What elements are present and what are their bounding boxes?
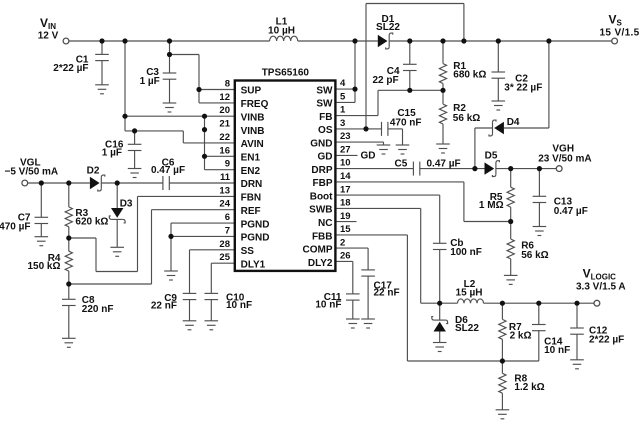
svg-text:TPS65160: TPS65160 bbox=[262, 68, 310, 79]
svg-text:10: 10 bbox=[340, 158, 351, 169]
svg-text:6: 6 bbox=[225, 212, 230, 223]
svg-text:D5: D5 bbox=[485, 151, 498, 162]
svg-text:23 V/50 mA: 23 V/50 mA bbox=[538, 154, 591, 165]
svg-text:C5: C5 bbox=[395, 158, 408, 169]
svg-text:FBB: FBB bbox=[312, 231, 333, 242]
svg-text:21: 21 bbox=[219, 119, 230, 130]
svg-text:56 kΩ: 56 kΩ bbox=[521, 250, 548, 261]
svg-text:150 kΩ: 150 kΩ bbox=[27, 261, 60, 272]
svg-text:DLY1: DLY1 bbox=[241, 259, 266, 270]
svg-text:56 kΩ: 56 kΩ bbox=[453, 113, 480, 124]
svg-text:FREQ: FREQ bbox=[241, 99, 269, 110]
svg-text:3: 3 bbox=[340, 118, 345, 129]
svg-text:9: 9 bbox=[225, 159, 230, 170]
svg-text:PGND: PGND bbox=[241, 219, 270, 230]
svg-text:SW: SW bbox=[316, 99, 333, 110]
svg-text:GD: GD bbox=[318, 152, 333, 163]
svg-text:1 µF: 1 µF bbox=[140, 76, 160, 87]
svg-text:22 pF: 22 pF bbox=[372, 75, 398, 86]
svg-text:27: 27 bbox=[340, 144, 351, 155]
svg-text:−5 V/50 mA: −5 V/50 mA bbox=[5, 167, 59, 178]
svg-text:25: 25 bbox=[219, 252, 230, 263]
svg-text:10 µH: 10 µH bbox=[268, 25, 295, 36]
svg-text:2*22 µF: 2*22 µF bbox=[589, 335, 624, 346]
svg-text:0.47 µF: 0.47 µF bbox=[427, 159, 461, 170]
svg-text:14: 14 bbox=[340, 171, 351, 182]
svg-text:1 µF: 1 µF bbox=[102, 147, 122, 158]
svg-text:26: 26 bbox=[340, 251, 351, 262]
svg-text:10 nF: 10 nF bbox=[226, 300, 252, 311]
svg-text:VINB: VINB bbox=[241, 126, 265, 137]
svg-text:3* 22 µF: 3* 22 µF bbox=[504, 83, 542, 94]
svg-text:22: 22 bbox=[219, 132, 230, 143]
svg-text:12: 12 bbox=[219, 92, 230, 103]
svg-text:23: 23 bbox=[340, 131, 351, 142]
svg-text:620 kΩ: 620 kΩ bbox=[75, 216, 108, 227]
svg-text:GD: GD bbox=[361, 151, 376, 162]
svg-text:Boot: Boot bbox=[310, 191, 333, 202]
svg-text:470 µF: 470 µF bbox=[0, 222, 31, 233]
svg-text:22 nF: 22 nF bbox=[374, 288, 400, 299]
svg-text:20: 20 bbox=[219, 105, 230, 116]
svg-text:22 nF: 22 nF bbox=[151, 301, 177, 312]
svg-text:SL22: SL22 bbox=[376, 22, 400, 33]
svg-text:SWB: SWB bbox=[309, 205, 332, 216]
svg-text:8: 8 bbox=[225, 79, 230, 90]
svg-text:3.3 V/1.5 A: 3.3 V/1.5 A bbox=[576, 282, 626, 293]
svg-text:18: 18 bbox=[340, 198, 351, 209]
svg-text:680 kΩ: 680 kΩ bbox=[453, 69, 486, 80]
svg-text:FBP: FBP bbox=[313, 178, 333, 189]
svg-text:SS: SS bbox=[241, 246, 255, 257]
svg-text:VINB: VINB bbox=[241, 112, 265, 123]
svg-text:2: 2 bbox=[340, 237, 345, 248]
svg-text:2*22 µF: 2*22 µF bbox=[53, 63, 88, 74]
svg-text:D4: D4 bbox=[507, 117, 520, 128]
svg-text:D3: D3 bbox=[120, 198, 133, 209]
svg-text:OS: OS bbox=[318, 125, 333, 136]
svg-text:220 nF: 220 nF bbox=[82, 304, 114, 315]
svg-text:7: 7 bbox=[225, 225, 230, 236]
svg-text:28: 28 bbox=[219, 239, 230, 250]
svg-text:EN1: EN1 bbox=[241, 153, 261, 164]
svg-text:5: 5 bbox=[340, 91, 346, 102]
svg-text:0.47 µF: 0.47 µF bbox=[151, 165, 185, 176]
svg-text:100 nF: 100 nF bbox=[450, 247, 482, 258]
svg-text:0.47 µF: 0.47 µF bbox=[554, 206, 588, 217]
svg-text:DLY2: DLY2 bbox=[308, 258, 333, 269]
svg-text:PGND: PGND bbox=[241, 233, 270, 244]
svg-text:DRN: DRN bbox=[241, 179, 263, 190]
svg-text:SUP: SUP bbox=[241, 86, 262, 97]
svg-text:NC: NC bbox=[318, 218, 332, 229]
svg-text:12 V: 12 V bbox=[38, 31, 59, 42]
svg-text:DRP: DRP bbox=[311, 165, 332, 176]
svg-text:D2: D2 bbox=[87, 165, 100, 176]
svg-text:470 nF: 470 nF bbox=[390, 117, 422, 128]
svg-text:AVIN: AVIN bbox=[241, 139, 264, 150]
svg-text:GND: GND bbox=[310, 138, 332, 149]
svg-text:10 nF: 10 nF bbox=[544, 345, 570, 356]
svg-text:15 V/1.5 A: 15 V/1.5 A bbox=[600, 28, 640, 39]
svg-text:SW: SW bbox=[316, 85, 333, 96]
svg-text:1.2 kΩ: 1.2 kΩ bbox=[514, 382, 544, 393]
svg-text:EN2: EN2 bbox=[241, 166, 261, 177]
svg-text:17: 17 bbox=[340, 184, 351, 195]
svg-text:10 nF: 10 nF bbox=[315, 300, 341, 311]
svg-text:1 MΩ: 1 MΩ bbox=[479, 200, 504, 211]
svg-text:11: 11 bbox=[220, 172, 231, 183]
svg-text:19: 19 bbox=[340, 211, 351, 222]
svg-text:15: 15 bbox=[340, 224, 351, 235]
svg-text:4: 4 bbox=[340, 78, 346, 89]
svg-text:SL22: SL22 bbox=[455, 323, 479, 334]
svg-text:REF: REF bbox=[241, 206, 261, 217]
svg-text:1: 1 bbox=[340, 105, 346, 116]
svg-text:FB: FB bbox=[319, 112, 332, 123]
svg-text:13: 13 bbox=[219, 185, 230, 196]
svg-text:16: 16 bbox=[219, 145, 230, 156]
svg-text:15 µH: 15 µH bbox=[456, 287, 483, 298]
svg-text:2 kΩ: 2 kΩ bbox=[510, 331, 532, 342]
svg-text:FBN: FBN bbox=[241, 193, 262, 204]
svg-text:COMP: COMP bbox=[303, 245, 333, 256]
svg-text:24: 24 bbox=[219, 199, 230, 210]
